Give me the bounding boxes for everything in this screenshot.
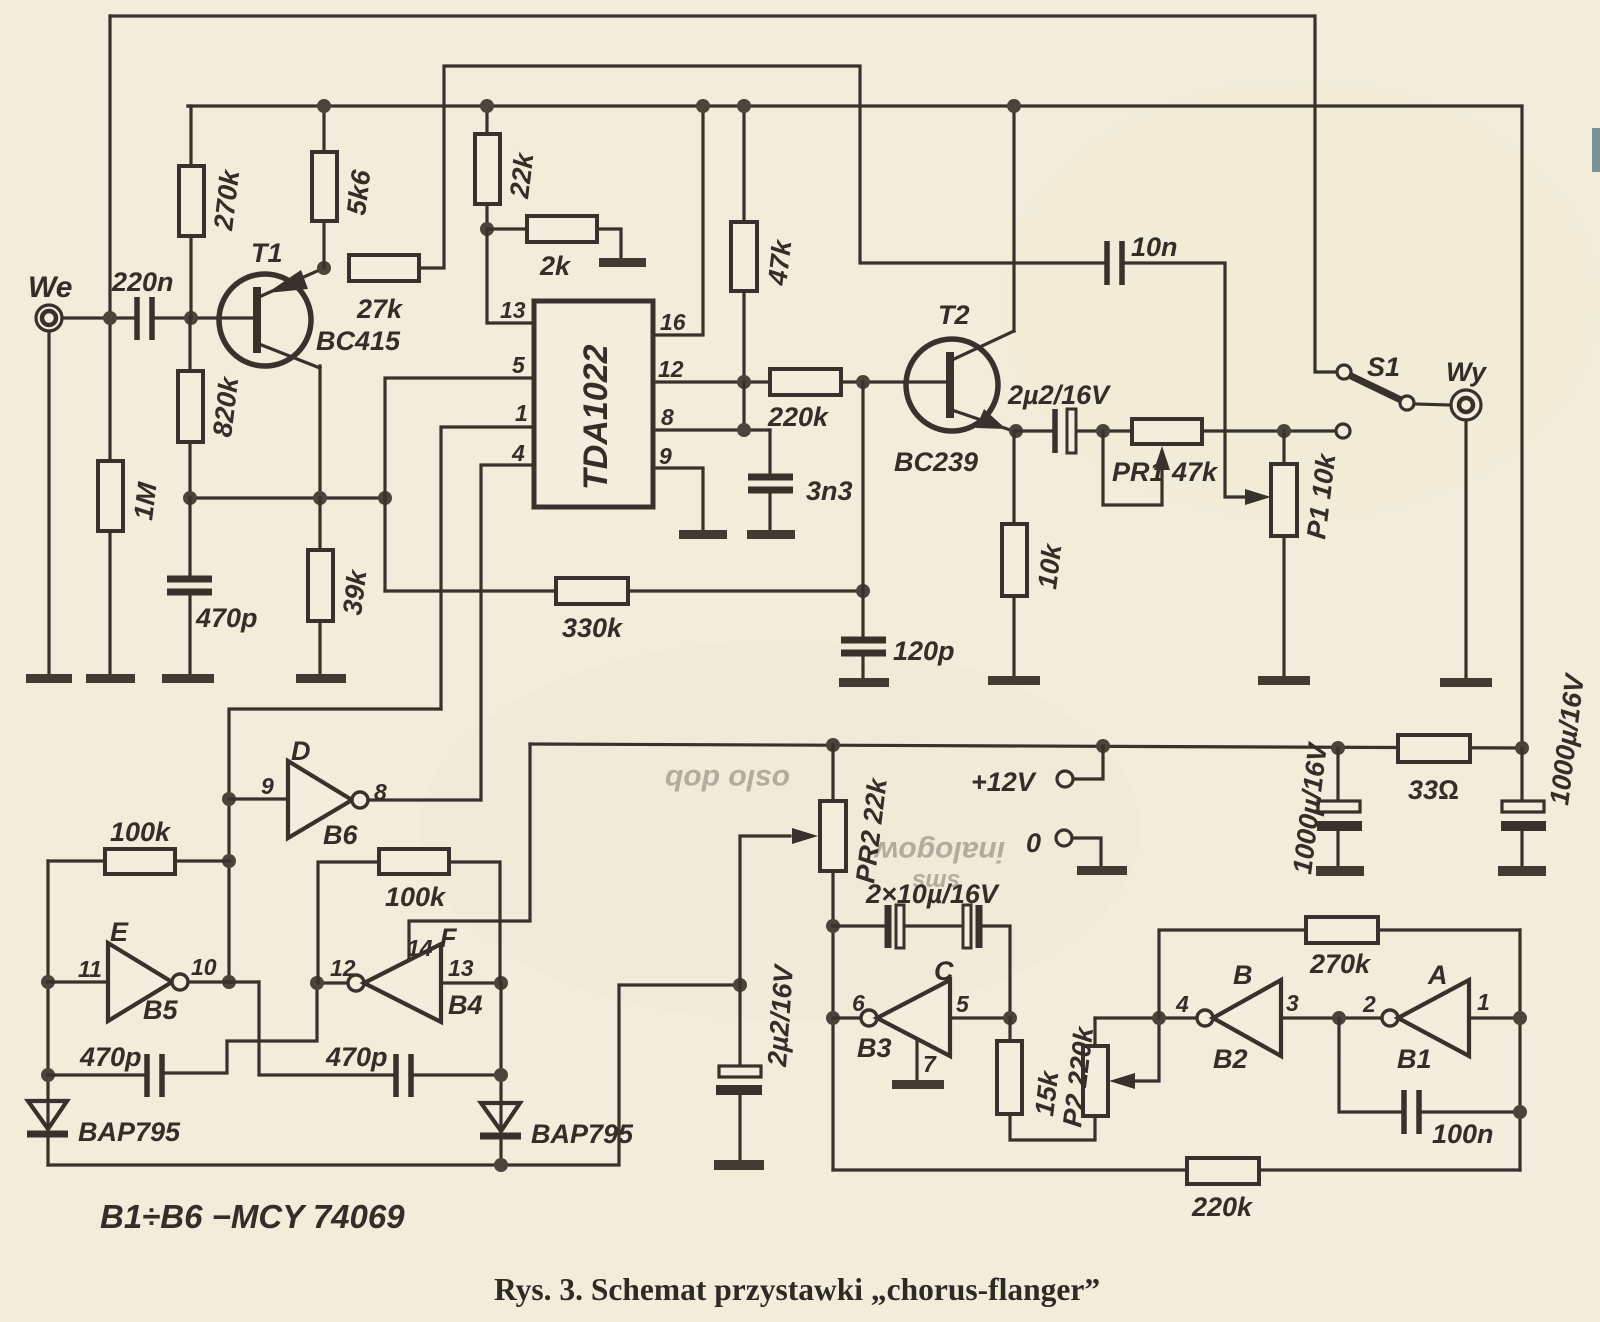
- wire left frame vertical: [108, 16, 111, 461]
- wire 220n to T1 base: [156, 316, 256, 319]
- node 2u2 control junction: [733, 978, 747, 992]
- resistor 270k: [189, 236, 192, 318]
- wire right LFO vertical: [1518, 930, 1521, 1170]
- resistor 100k (B4): [318, 862, 379, 983]
- wire bottom-left control rail: [48, 985, 740, 1165]
- wire 10n to P1 wiper: [1126, 263, 1248, 497]
- ground (B3 pin7): [892, 1080, 944, 1089]
- svg-text:B1÷B6 −MCY 74069: B1÷B6 −MCY 74069: [100, 1198, 405, 1235]
- resistor 47k: [742, 106, 745, 222]
- capacitor 120p: [861, 591, 864, 637]
- svg-text:8: 8: [661, 404, 674, 430]
- wire emitter bias line: [188, 496, 385, 499]
- node B5 output junction: [222, 975, 236, 989]
- capacitor 470p (first): [48, 1073, 143, 1076]
- svg-text:F: F: [440, 923, 458, 953]
- ground (3n3): [747, 530, 795, 539]
- svg-text:B6: B6: [323, 820, 358, 850]
- node T1 collector/5k6/27k junction: [317, 261, 331, 275]
- svg-text:1: 1: [1477, 989, 1490, 1015]
- wire bottom-right rail: [833, 1168, 1187, 1171]
- node B4 input junction: [494, 976, 508, 990]
- svg-text:D: D: [291, 736, 311, 766]
- svg-text:oslo dob: oslo dob: [665, 763, 790, 796]
- svg-text:0: 0: [1026, 828, 1041, 858]
- capacitor 470p (T1): [188, 498, 191, 576]
- svg-text:10: 10: [191, 954, 217, 980]
- node 100k-1 right: [222, 854, 236, 868]
- svg-text:B: B: [1233, 960, 1253, 990]
- svg-text:B3: B3: [857, 1033, 892, 1063]
- svg-text:33Ω: 33Ω: [1408, 775, 1459, 805]
- svg-text:5k6: 5k6: [341, 167, 376, 216]
- wire B4 pin14 riser: [409, 744, 530, 960]
- svg-text:10k: 10k: [1032, 540, 1068, 590]
- node T2 collector on rail: [1007, 99, 1021, 113]
- node 22k top on rail: [480, 99, 494, 113]
- resistor 15k: [1008, 1018, 1011, 1041]
- svg-text:10n: 10n: [1131, 232, 1178, 262]
- svg-text:C: C: [934, 956, 954, 986]
- wire PR2 wiper line: [740, 836, 790, 985]
- svg-text:6: 6: [852, 990, 865, 1016]
- P2 wiper arrow: [1109, 1073, 1135, 1089]
- ground (P1): [1258, 676, 1310, 685]
- wire B5 left vertical: [46, 861, 49, 1165]
- svg-text:B1: B1: [1397, 1044, 1432, 1074]
- node 47k top on rail: [737, 99, 751, 113]
- resistor 33R: [1398, 735, 1470, 762]
- ground (10k): [988, 676, 1040, 685]
- node T1 collector line: [313, 491, 327, 505]
- svg-text:BC239: BC239: [894, 447, 978, 477]
- svg-text:E: E: [110, 917, 129, 947]
- wire T2 collector to rail: [1012, 106, 1015, 331]
- node B3 in / 15k junction: [1003, 1011, 1017, 1025]
- potentiometer P1 10k: [1282, 431, 1285, 464]
- node B5 input: [41, 975, 55, 989]
- node B2 out / 270k junction: [1152, 1011, 1166, 1025]
- resistor 1M: [98, 461, 123, 531]
- wire B2 output line: [1095, 1016, 1197, 1019]
- svg-text:220k: 220k: [1191, 1192, 1254, 1222]
- node B3 input tap: [826, 1011, 840, 1025]
- wire pin4: [481, 465, 534, 800]
- wire right rail vertical: [1520, 106, 1523, 749]
- svg-text:12: 12: [658, 356, 684, 382]
- capacitor 1000u/16V (second): [1520, 748, 1523, 801]
- connector Wy: [1451, 390, 1481, 420]
- transistor T1 BC415: [219, 274, 311, 366]
- svg-text:16: 16: [660, 309, 686, 335]
- trimmer PR1 47k: [1132, 419, 1202, 444]
- capacitor 470p (second): [393, 1054, 399, 1097]
- ground (2k): [599, 258, 646, 267]
- ground (120p): [839, 678, 889, 687]
- wiper arrow into P1: [1245, 489, 1271, 505]
- svg-text:3n3: 3n3: [806, 476, 853, 506]
- node pin12/47k junction: [737, 375, 751, 389]
- svg-text:470p: 470p: [79, 1042, 142, 1072]
- faint print bleed-through ghosts: [665, 763, 1005, 895]
- node T2 emitter junction: [1009, 424, 1023, 438]
- wire 15k to P2 bottom U-link: [1010, 1114, 1095, 1140]
- node 5k6 top on rail: [317, 99, 331, 113]
- switch S1: [1337, 365, 1351, 379]
- resistor 2k: [487, 227, 527, 230]
- svg-text:13: 13: [448, 955, 474, 981]
- resistor 5k6: [322, 106, 325, 152]
- wire T2 base: [863, 380, 947, 383]
- svg-text:100k: 100k: [110, 817, 172, 847]
- svg-text:2×10µ/16V: 2×10µ/16V: [865, 879, 1000, 909]
- svg-text:Wy: Wy: [1446, 357, 1488, 387]
- diode BAP795 (first): [28, 1101, 67, 1129]
- wire emitter to 2u2 cap: [1016, 429, 1051, 432]
- svg-text:2µ2/16V: 2µ2/16V: [1007, 380, 1111, 410]
- terminal open circle (to S1): [1336, 424, 1350, 438]
- node T1 base junction: [184, 311, 198, 325]
- svg-text:T2: T2: [938, 300, 970, 330]
- wire pin5 vertical to 330k line: [383, 498, 386, 591]
- node rail right corner: [1515, 741, 1529, 755]
- wire pin5: [385, 378, 534, 498]
- node pin5 branch: [378, 491, 392, 505]
- svg-text:120p: 120p: [893, 636, 955, 666]
- svg-text:5: 5: [512, 352, 526, 378]
- wire B4 right vertical: [499, 983, 502, 1165]
- svg-text:3: 3: [1286, 990, 1299, 1016]
- node T2 base/220k junction: [856, 375, 870, 389]
- node pin8 junction: [737, 423, 751, 437]
- inverter B6: [229, 797, 288, 800]
- svg-text:220k: 220k: [767, 402, 830, 432]
- svg-text:330k: 330k: [562, 613, 624, 643]
- svg-text:PR1: PR1: [1112, 457, 1165, 487]
- wire We to 220n: [62, 316, 133, 319]
- svg-text:12: 12: [330, 955, 356, 981]
- svg-text:22k: 22k: [504, 149, 540, 200]
- wire 120p riser: [861, 382, 864, 591]
- capacitor 220n: [134, 297, 140, 340]
- resistor 820k: [188, 318, 191, 371]
- svg-text:470p: 470p: [195, 603, 258, 633]
- svg-text:BC415: BC415: [316, 326, 401, 356]
- transistor T2 BC239: [906, 339, 998, 431]
- wire top frame: [110, 16, 1337, 372]
- svg-text:270k: 270k: [1309, 949, 1372, 979]
- resistor 100k (B5): [48, 859, 105, 862]
- potentiometer P2 220k: [1083, 1046, 1108, 1116]
- ground (0 terminal): [1077, 866, 1127, 875]
- wire pin1: [441, 427, 534, 709]
- ground (1000u-2): [1498, 866, 1546, 876]
- svg-text:1M: 1M: [128, 480, 162, 521]
- svg-text:2k: 2k: [539, 251, 572, 281]
- connector We: [36, 305, 62, 331]
- resistor 220k (LFO feedback): [1187, 1158, 1259, 1184]
- svg-text:47k: 47k: [762, 236, 798, 287]
- node +12V tap on rail: [1096, 739, 1110, 753]
- wire 22k to pin13: [487, 229, 534, 323]
- svg-text:T1: T1: [251, 238, 283, 268]
- node 22k/2k junction: [480, 222, 494, 236]
- svg-text:9: 9: [659, 443, 672, 469]
- wire pin8: [653, 428, 770, 431]
- ground (39k): [296, 674, 346, 683]
- wire left frame vertical lower: [108, 531, 111, 676]
- svg-text:13: 13: [500, 297, 526, 323]
- svg-text:220n: 220n: [111, 267, 174, 297]
- node 2x10u tap: [826, 919, 840, 933]
- node PR1 left junction: [1096, 424, 1110, 438]
- svg-text:Rys. 3. Schemat przystawki „ch: Rys. 3. Schemat przystawki „chorus-flang…: [494, 1272, 1100, 1307]
- ground (We): [26, 674, 72, 683]
- svg-text:8: 8: [374, 779, 387, 805]
- svg-text:47k: 47k: [1171, 457, 1219, 487]
- resistor 22k: [485, 106, 488, 134]
- inverter B3: [833, 1016, 861, 1019]
- capacitor 2u2/16V (LFO): [738, 985, 741, 1066]
- node pin16 on rail: [696, 99, 710, 113]
- wire Wy stub to ground: [1464, 420, 1467, 678]
- inverter B2: [1197, 1010, 1213, 1026]
- node B1 out / 100n junction: [1332, 1011, 1346, 1025]
- diode BAP795 (second): [481, 1103, 520, 1131]
- svg-text:39k: 39k: [337, 566, 373, 616]
- node 820k bottom: [183, 491, 197, 505]
- svg-text:B4: B4: [448, 990, 483, 1020]
- svg-text:11: 11: [78, 956, 102, 982]
- wire pin12: [653, 380, 770, 383]
- trimmer PR2 22k: [831, 745, 834, 801]
- node 470p-1 left: [41, 1068, 55, 1082]
- svg-text:27k: 27k: [356, 294, 404, 324]
- wire pin9 to ground: [653, 468, 703, 530]
- wire B3 pin7 to ground: [915, 1039, 918, 1080]
- capacitor 10n: [1104, 241, 1110, 285]
- ground (470p T1): [162, 674, 214, 683]
- svg-text:B5: B5: [143, 995, 178, 1025]
- ground (1M bottom): [86, 674, 135, 683]
- wire +12V top rail: [188, 104, 1522, 107]
- wire pin12-pin8 link: [742, 382, 745, 430]
- svg-text:4: 4: [1175, 991, 1189, 1017]
- node diode-2 bottom on rail: [494, 1158, 508, 1172]
- PR1 wiper bracket: [1103, 431, 1162, 505]
- IC U1 TDA1022: [534, 301, 653, 507]
- svg-text:We: We: [28, 271, 72, 304]
- resistor 39k: [318, 498, 321, 550]
- svg-text:1: 1: [515, 400, 528, 426]
- node B6 input tap: [222, 792, 236, 806]
- node 100n right on vertical: [1513, 1105, 1527, 1119]
- scan artifact right edge: [1592, 128, 1600, 172]
- node B4 output junction: [310, 976, 324, 990]
- svg-text:inalogow: inalogow: [873, 835, 1005, 868]
- wire 27k to feedback line: [419, 66, 1103, 268]
- svg-text:4: 4: [511, 440, 525, 466]
- wire T1 collector down: [318, 366, 321, 498]
- resistor 27k: [349, 255, 419, 281]
- svg-text:100k: 100k: [385, 882, 447, 912]
- node PR2 top on rail: [826, 738, 840, 752]
- capacitor 2x10u/16V (series pair): [833, 924, 884, 927]
- resistor 270k (LFO): [1159, 930, 1306, 1018]
- svg-text:S1: S1: [1367, 352, 1400, 382]
- svg-text:A: A: [1427, 960, 1448, 990]
- node 1000u-1 on rail: [1331, 741, 1345, 755]
- svg-text:+12V: +12V: [971, 767, 1037, 797]
- svg-text:14: 14: [407, 935, 433, 961]
- resistor 10k (T2 emitter): [1012, 431, 1015, 524]
- capacitor 3n3: [768, 430, 771, 474]
- wire B5.out to 470p-2: [259, 982, 392, 1075]
- svg-text:2: 2: [1362, 991, 1376, 1017]
- node We/left-frame junction: [103, 311, 117, 325]
- resistor 220k (pin12 to T2): [770, 369, 841, 395]
- resistor 330k: [385, 589, 556, 592]
- wire B5.out to pin1 link: [229, 709, 441, 982]
- svg-text:100n: 100n: [1432, 1119, 1494, 1149]
- node 470p-2 right: [494, 1068, 508, 1082]
- svg-text:5: 5: [956, 991, 970, 1017]
- inverter B4: [317, 981, 348, 984]
- terminal 0: [1056, 830, 1072, 846]
- svg-text:7: 7: [923, 1051, 937, 1077]
- svg-text:B2: B2: [1213, 1044, 1248, 1074]
- svg-text:BAP795: BAP795: [78, 1117, 181, 1147]
- ground (1000u-1): [1316, 866, 1364, 876]
- svg-text:470p: 470p: [325, 1042, 388, 1072]
- inverter B1: [1382, 1010, 1398, 1026]
- capacitor 1000u/16V (first): [1336, 748, 1339, 801]
- ground (2u2 LFO): [714, 1160, 764, 1170]
- terminal +12V: [1073, 746, 1103, 779]
- ground (pin9): [679, 530, 727, 539]
- node B1 in on vertical: [1513, 1011, 1527, 1025]
- inverter B5: [48, 980, 108, 983]
- wire pin16 to rail: [653, 106, 703, 335]
- wiper arrow into PR2: [792, 828, 818, 844]
- capacitor 100n: [1339, 1018, 1400, 1112]
- node output/P1 junction: [1277, 424, 1291, 438]
- svg-text:TDA1022: TDA1022: [577, 344, 615, 490]
- wire +12V rail: [530, 744, 1522, 748]
- node 330k right / T2 base vertical: [856, 584, 870, 598]
- svg-text:9: 9: [261, 773, 274, 799]
- capacitor 2u2/16V (T2 out): [1052, 409, 1058, 453]
- wire We stub to ground: [47, 331, 50, 676]
- wire 470p-1 to B4.out jog: [166, 983, 317, 1073]
- ground (Wy): [1440, 678, 1492, 687]
